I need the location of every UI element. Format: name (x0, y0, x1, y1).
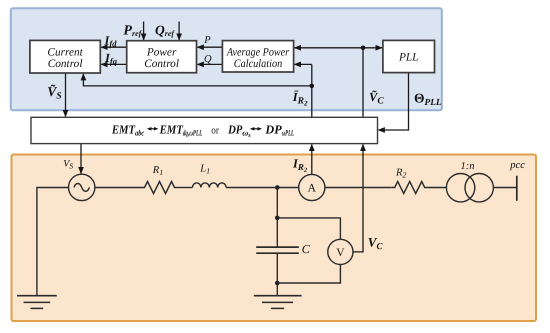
svg-text:V: V (336, 247, 345, 259)
svg-text:Calculation: Calculation (234, 58, 283, 70)
svg-text:C: C (302, 242, 311, 256)
svg-text:Control: Control (144, 58, 179, 70)
svg-text:Q: Q (204, 54, 212, 65)
svg-text:Average Power: Average Power (226, 46, 290, 58)
svg-text:1:n: 1:n (461, 161, 475, 172)
svg-text:Current: Current (47, 47, 83, 59)
svg-text:pcc: pcc (509, 160, 525, 171)
svg-text:Power: Power (146, 47, 177, 59)
svg-text:PLL: PLL (398, 52, 418, 64)
svg-text:or: or (211, 125, 219, 136)
svg-text:Control: Control (48, 58, 83, 70)
svg-text:A: A (308, 183, 317, 195)
svg-text:P: P (203, 35, 211, 46)
